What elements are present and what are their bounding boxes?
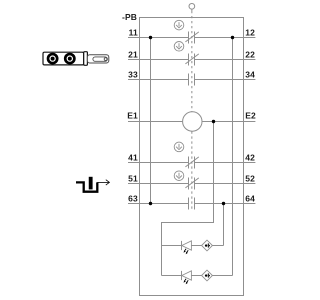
- NC contact row 51: [185, 178, 198, 190]
- mechanical link dashed line: [191, 11, 193, 112]
- svg-text:-PB: -PB: [122, 12, 137, 22]
- svg-text:33: 33: [128, 70, 138, 80]
- wire W3 from E2 to LED rail: [162, 122, 214, 276]
- NC contact row 41: [185, 157, 198, 169]
- svg-text:21: 21: [128, 50, 138, 60]
- forced-operation arrow A4: [174, 171, 184, 181]
- indicator diamond S2: [202, 270, 213, 281]
- LED branch 1 wire: [162, 245, 224, 247]
- pulse signal icon: [76, 177, 109, 192]
- forced-operation arrow A3: [174, 142, 184, 152]
- svg-text:41: 41: [128, 153, 138, 163]
- LED D2: [182, 271, 192, 284]
- NC contact row 11: [185, 32, 198, 44]
- NO contact row 63: [189, 198, 195, 210]
- NO contact row 33: [189, 74, 195, 86]
- device box -PB: [140, 18, 244, 296]
- wire W2 from 12 to LED branch 2: [232, 38, 234, 276]
- junction dot row63 right: [222, 202, 225, 205]
- wire row 33-34: [128, 79, 255, 81]
- LED branch 2 wire: [162, 275, 233, 277]
- svg-text:63: 63: [128, 194, 138, 204]
- junction dot row11 left: [149, 36, 152, 39]
- junction dot row11 right: [231, 36, 234, 39]
- sensor connector icon: [43, 52, 109, 66]
- NC contact row 21: [185, 54, 198, 66]
- wire row 21-22: [128, 59, 255, 61]
- forced-operation arrow A1: [174, 20, 184, 30]
- wire row 41-42: [128, 162, 255, 164]
- wire row 63-64: [128, 203, 255, 205]
- coil circle: [183, 112, 202, 131]
- top actuator terminal: [189, 3, 195, 9]
- forced-operation arrow A2: [174, 42, 184, 52]
- svg-text:34: 34: [245, 70, 255, 80]
- wire row 51-52: [128, 183, 255, 185]
- svg-text:52: 52: [245, 174, 255, 184]
- LED D1: [182, 241, 192, 254]
- svg-text:E1: E1: [127, 110, 138, 120]
- wire row E1-E2: [128, 121, 255, 123]
- svg-text:42: 42: [245, 153, 255, 163]
- svg-text:51: 51: [128, 174, 138, 184]
- svg-text:12: 12: [245, 28, 255, 38]
- wire W1 from 11 to 63: [150, 38, 152, 204]
- indicator diamond S1: [202, 240, 213, 251]
- wire row 11-12: [128, 37, 255, 39]
- wire W4 from 64 to LED branch 1: [223, 204, 225, 246]
- svg-text:22: 22: [245, 50, 255, 60]
- svg-text:E2: E2: [245, 110, 256, 120]
- svg-text:64: 64: [245, 194, 255, 204]
- junction dot E2: [212, 120, 215, 123]
- svg-text:11: 11: [129, 28, 138, 38]
- junction dot row63 left: [149, 202, 152, 205]
